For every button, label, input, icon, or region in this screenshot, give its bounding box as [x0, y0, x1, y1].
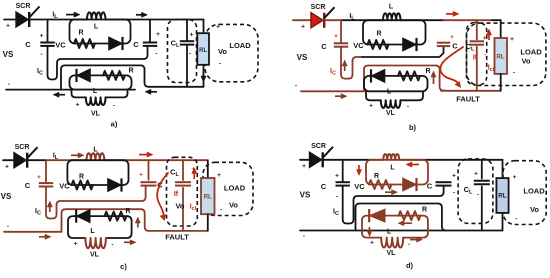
svg-text:R: R — [425, 68, 430, 75]
svg-text:+: + — [6, 23, 10, 30]
svg-text:FAULT: FAULT — [165, 233, 189, 242]
wire node to C2 (c) — [148, 160, 150, 180]
inductor L (b) — [383, 13, 401, 20]
svg-text:C: C — [25, 40, 31, 49]
svg-text:Vo: Vo — [229, 201, 238, 210]
wire load top black (b) — [492, 19, 501, 21]
svg-text:-: - — [453, 190, 455, 197]
wire node to C1 (b) — [340, 20, 342, 42]
wire CL branch top (b) — [476, 20, 478, 39]
svg-text:-: - — [407, 104, 409, 111]
capacitor C1 (d) — [336, 182, 350, 185]
svg-text:VS: VS — [3, 50, 14, 59]
svg-text:d): d) — [406, 261, 414, 270]
wire node to C1 (c) — [45, 160, 47, 182]
wire SCR to node (a) — [29, 19, 87, 21]
svg-text:RL: RL — [496, 54, 504, 61]
capacitor CL (b) — [470, 41, 484, 44]
arrow box down (d) — [367, 227, 372, 237]
svg-text:+: + — [74, 241, 78, 248]
diode D1 (c) — [108, 178, 122, 191]
svg-text:LOAD: LOAD — [224, 184, 246, 193]
arrow below wire left (d) — [406, 162, 419, 167]
wire C1 to C2 bottom (a) — [48, 46, 148, 79]
svg-text:-: - — [408, 241, 410, 248]
svg-text:RL: RL — [199, 47, 207, 54]
svg-text:LOAD: LOAD — [523, 187, 545, 196]
svg-text:C: C — [452, 42, 458, 51]
arrow H2 up (b) — [431, 71, 436, 84]
wire RL top lead (d) — [502, 160, 504, 178]
svg-text:L: L — [387, 229, 392, 236]
svg-text:CL: CL — [464, 185, 473, 196]
arrow RL current down (a) — [201, 72, 206, 82]
svg-text:L: L — [94, 24, 99, 31]
wire CL branch bottom (a) — [186, 45, 188, 87]
svg-text:-: - — [7, 223, 9, 230]
svg-text:+: + — [5, 164, 9, 171]
svg-text:+: + — [450, 34, 454, 41]
thyristor SCR (a) — [16, 7, 40, 28]
svg-text:+: + — [302, 163, 306, 170]
wire L region red right (d) — [399, 159, 410, 161]
svg-text:If: If — [174, 191, 179, 198]
wire RL bottom lead (a) — [203, 65, 205, 87]
svg-text:+: + — [334, 33, 338, 40]
wire H2 return (a) — [61, 65, 204, 89]
upper loop wire (c) — [67, 160, 128, 185]
svg-text:VC: VC — [55, 41, 66, 50]
thyristor SCR (c) — [14, 147, 38, 168]
arrow top right (c) — [139, 152, 153, 157]
diode D2 (c) — [76, 210, 90, 223]
arrow loop down (d) — [356, 165, 361, 176]
svg-text:R: R — [125, 208, 130, 215]
wire anode SCR (c) — [3, 159, 14, 161]
svg-text:-: - — [220, 207, 222, 214]
svg-text:+: + — [190, 32, 194, 39]
svg-text:R: R — [422, 207, 427, 214]
resistor RL (c) — [201, 178, 215, 214]
diode D2 (b) — [371, 69, 385, 82]
VL loop wire (a) — [72, 90, 128, 98]
diode D1 (b) — [403, 38, 417, 51]
svg-text:-: - — [477, 192, 479, 199]
wire C1 to H1 (c) — [46, 187, 146, 219]
svg-text:-: - — [303, 233, 305, 240]
svg-text:-: - — [189, 51, 191, 58]
svg-text:-: - — [484, 52, 486, 59]
capacitor C2 (d) — [436, 182, 452, 185]
svg-text:L: L — [93, 88, 98, 95]
inductor L lower (a) — [86, 97, 106, 105]
upper loop wire (d) — [366, 160, 428, 185]
svg-text:SCR: SCR — [15, 144, 30, 151]
svg-text:+: + — [156, 31, 160, 38]
svg-text:VC: VC — [353, 41, 364, 50]
diode D2 (d) — [369, 209, 385, 222]
svg-text:-: - — [111, 242, 113, 249]
bottom return wire (a) — [6, 89, 135, 91]
arrow IC up (b) — [342, 60, 347, 71]
arrow lower left-arrow (d) — [398, 221, 412, 226]
wire anode SCR (b) — [293, 19, 311, 21]
svg-text:+: + — [369, 103, 373, 110]
svg-text:CL: CL — [170, 168, 179, 179]
LOAD dashed box (b) — [467, 23, 546, 85]
wire L to C2 (d) — [410, 159, 444, 161]
svg-text:+: + — [40, 33, 44, 40]
svg-text:VL: VL — [386, 110, 396, 117]
inner dashed box CL (d) — [458, 159, 493, 224]
bottom return wire (c) — [4, 231, 62, 233]
wire CL branch (d) — [481, 160, 483, 179]
wire H1 black (b) — [362, 47, 444, 57]
svg-text:R: R — [79, 174, 84, 181]
wire RL bottom lead (c) — [207, 214, 209, 231]
capacitor CL (a) — [180, 41, 194, 44]
svg-text:L: L — [390, 165, 395, 172]
capacitor C2 (b) — [437, 43, 450, 46]
wire SCR to C1 node (c) — [27, 159, 46, 161]
svg-text:VS: VS — [1, 192, 12, 201]
arrow bottom right (a) — [145, 89, 157, 94]
lower loop wire (b) — [364, 76, 428, 91]
svg-text:LOAD: LOAD — [229, 41, 251, 50]
svg-text:-: - — [513, 70, 515, 77]
svg-text:+: + — [510, 36, 514, 43]
diode D1 (a) — [109, 37, 123, 50]
arrow bottom left (c) — [39, 234, 51, 239]
wire C1 node to L (b) — [341, 19, 383, 21]
capacitor CL (c) — [175, 182, 191, 185]
wire L region red left (d) — [372, 159, 383, 161]
wire C1 node to L (d) — [343, 159, 372, 161]
arrow top right (b) — [446, 11, 459, 16]
arrow Icl up (c) — [192, 168, 197, 180]
wire node to C1 (a) — [47, 20, 49, 42]
svg-text:Vo: Vo — [521, 57, 530, 66]
resistor R lower (a) — [103, 71, 125, 80]
resistor RL (b) — [495, 38, 508, 74]
wire C2 to load (c) — [149, 159, 208, 161]
bottom return wire red (b) — [301, 90, 364, 92]
wire node to C1 (d) — [342, 160, 344, 181]
wire SCR to C1 node (d) — [323, 159, 343, 161]
wire node to C2 (a) — [149, 20, 151, 42]
svg-text:+: + — [483, 35, 487, 42]
svg-text:Vo: Vo — [530, 205, 539, 214]
svg-text:Icl: Icl — [190, 204, 197, 213]
svg-text:+: + — [76, 102, 80, 109]
svg-text:Vo: Vo — [218, 47, 227, 56]
arrow bottom left (a) — [53, 92, 65, 97]
svg-text:C: C — [133, 40, 139, 49]
svg-text:SCR: SCR — [311, 143, 326, 150]
wire RL top lead (c) — [207, 160, 209, 178]
resistor R lower (c) — [105, 212, 127, 221]
inner dashed box CL (c) — [167, 157, 198, 226]
LOAD dashed box (c) — [203, 162, 253, 215]
capacitor C1 (a) — [40, 43, 54, 46]
svg-text:+: + — [217, 172, 221, 179]
wire H2 return (b) — [364, 66, 445, 92]
resistor R lower (b) — [398, 71, 420, 80]
lower loop wire (a) — [70, 75, 132, 89]
svg-text:LOAD: LOAD — [520, 48, 542, 57]
bottom wire to load (b) — [441, 90, 501, 92]
svg-text:-: - — [515, 216, 517, 223]
svg-text:C: C — [321, 182, 327, 191]
svg-text:L: L — [90, 228, 95, 235]
upper loop wire (a) — [70, 20, 131, 44]
thyristor SCR (d) — [310, 147, 334, 168]
svg-text:CL: CL — [466, 42, 475, 53]
capacitor C2 (a) — [143, 43, 157, 46]
svg-text:CL: CL — [171, 39, 180, 50]
svg-text:L: L — [389, 4, 394, 11]
capacitor CL (d) — [474, 181, 490, 184]
wire CL branch bottom (c) — [182, 188, 184, 231]
wire C1 to H1 (b) — [341, 47, 362, 79]
resistor RL (a) — [197, 33, 209, 65]
arrow top mid right (a) — [136, 12, 148, 17]
resistor R upper (a) — [74, 39, 95, 48]
fault squiggle (b) — [440, 47, 463, 84]
bottom return wire (d) — [300, 230, 503, 232]
svg-text:Vo: Vo — [175, 202, 184, 211]
svg-text:L: L — [93, 147, 98, 154]
arrow IL right (a) — [66, 12, 80, 17]
inductor L (d) — [383, 154, 399, 160]
arrow bottom left right (b) — [335, 94, 347, 99]
svg-text:+: + — [452, 173, 456, 180]
arrow Icl up (b) — [486, 29, 491, 40]
svg-text:VC: VC — [354, 182, 365, 191]
svg-text:VL: VL — [91, 111, 101, 118]
svg-text:-: - — [8, 81, 10, 88]
svg-text:+: + — [139, 172, 143, 179]
svg-text:VS: VS — [300, 191, 311, 200]
capacitor C2 (c) — [141, 182, 157, 185]
inductor L lower (b) — [381, 100, 401, 108]
wire C2 to load (d) — [444, 159, 503, 161]
wire RL bottom lead (d) — [502, 213, 504, 231]
resistor R upper (b) — [368, 40, 389, 49]
arrow IC up (c) — [47, 201, 52, 212]
wire RL top lead (a) — [203, 20, 205, 34]
svg-text:FAULT: FAULT — [456, 95, 480, 104]
resistor R upper (c) — [72, 181, 94, 190]
inductor L (c) — [87, 153, 105, 160]
wire H2 return (d) — [356, 204, 446, 231]
svg-text:R: R — [78, 30, 83, 37]
fault arrowhead (c) — [160, 214, 166, 221]
svg-text:+: + — [370, 240, 374, 247]
svg-text:+: + — [335, 173, 339, 180]
wire CL branch bottom (b) — [476, 47, 478, 91]
svg-text:R: R — [376, 31, 381, 38]
wire CL branch bottom (d) — [481, 186, 483, 230]
svg-text:a): a) — [111, 120, 118, 129]
svg-text:R: R — [374, 173, 379, 180]
wire anode SCR (a) — [4, 19, 16, 21]
VL loop wire (b) — [366, 91, 423, 100]
svg-text:+: + — [301, 24, 305, 31]
svg-text:IC: IC — [330, 68, 336, 77]
svg-text:VS: VS — [297, 53, 308, 62]
svg-text:-: - — [336, 194, 338, 201]
wire SCR to C1 node (b) — [324, 19, 341, 21]
svg-text:VC: VC — [59, 182, 70, 191]
svg-text:IC: IC — [35, 208, 41, 217]
wire CL branch top (a) — [186, 20, 188, 42]
thyristor SCR (b) — [311, 7, 335, 28]
resistor RL (d) — [496, 178, 508, 213]
diode D1 (d) — [403, 178, 417, 191]
svg-text:IC: IC — [333, 209, 339, 218]
svg-text:-: - — [295, 83, 297, 90]
fault arrowhead (b) — [455, 81, 462, 88]
wire C1 node to load (c) — [46, 159, 87, 161]
svg-text:RL: RL — [204, 194, 212, 201]
arrow IL right (c) — [71, 153, 84, 158]
arrow loop bottom right (d) — [410, 237, 423, 242]
diode D2 (a) — [77, 69, 91, 82]
svg-text:C: C — [427, 182, 433, 191]
wire H2 return (c) — [62, 209, 208, 232]
LOAD dashed box (a) — [205, 24, 258, 81]
wire RL bottom lead (b) — [500, 74, 502, 91]
svg-text:-: - — [113, 103, 115, 110]
lower loop wire (d) — [362, 216, 428, 238]
resistor R lower (d) — [399, 211, 421, 220]
inductor L lower (d) — [381, 238, 403, 248]
svg-text:-: - — [219, 61, 221, 68]
svg-text:IC: IC — [37, 68, 43, 77]
svg-text:L: L — [387, 89, 392, 96]
fault squiggle (c) — [157, 173, 168, 216]
svg-text:VL: VL — [90, 252, 100, 259]
wire CL branch top (c) — [182, 160, 184, 180]
arrow box right up (c) — [135, 217, 140, 228]
svg-text:C: C — [321, 42, 327, 51]
svg-text:If: If — [473, 55, 478, 62]
svg-text:-: - — [155, 51, 157, 58]
upper loop wire (b) — [363, 20, 426, 44]
svg-text:RL: RL — [498, 193, 506, 200]
svg-text:+: + — [216, 24, 220, 31]
wire L to C2 (c) — [104, 159, 148, 161]
svg-text:VL: VL — [387, 250, 397, 257]
arrow under R right (d) — [385, 190, 398, 195]
svg-text:+: + — [513, 174, 517, 181]
wire L to C2 (a) — [106, 19, 204, 21]
wire L to C2 (b) — [401, 19, 444, 21]
capacitor C1 (c) — [39, 183, 53, 186]
inner dashed box CL (a) — [168, 20, 197, 83]
svg-text:-: - — [40, 51, 42, 58]
svg-text:R: R — [128, 68, 133, 75]
arrow loop bottom right (c) — [124, 240, 136, 245]
inductor L lower (c) — [85, 238, 105, 248]
svg-text:C: C — [25, 181, 31, 190]
svg-text:+: + — [474, 171, 478, 178]
wire anode SCR (d) — [300, 159, 310, 161]
inner dashed box CL (b) — [467, 23, 487, 86]
wire C2 to load (b) — [444, 19, 493, 21]
svg-text:b): b) — [409, 123, 417, 132]
capacitor C1 (b) — [334, 43, 348, 46]
svg-text:c): c) — [120, 262, 127, 271]
LOAD dashed box (d) — [503, 161, 546, 225]
inductor L (a) — [87, 12, 105, 19]
svg-text:SCR: SCR — [311, 4, 326, 11]
svg-text:+: + — [37, 174, 41, 181]
wire C1 to H1 (d) — [343, 186, 444, 224]
resistor R upper (d) — [369, 180, 392, 189]
lower loop wire (c) — [68, 216, 132, 238]
wire RL top lead (b) — [500, 20, 502, 38]
svg-text:SCR: SCR — [16, 3, 31, 10]
